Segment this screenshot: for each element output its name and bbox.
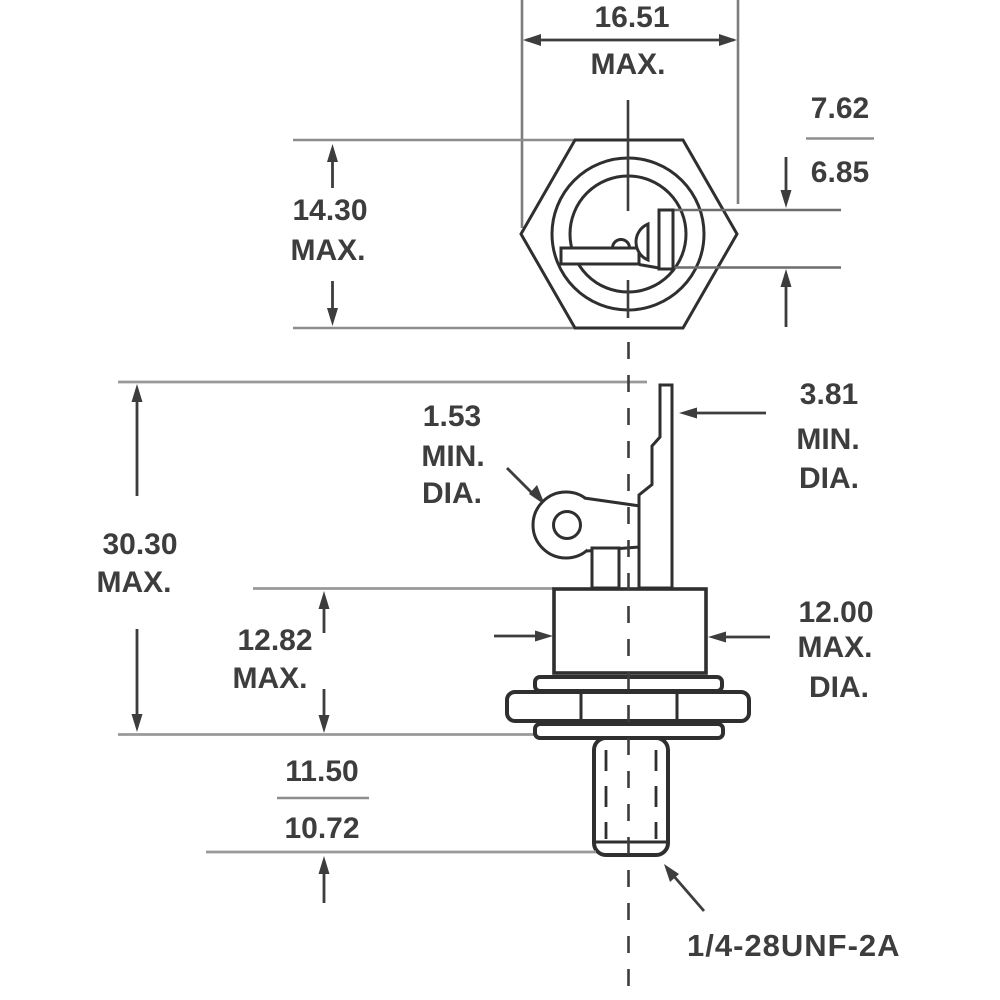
stud chamfer line — [596, 841, 666, 844]
fraction line 7.62/6.85 — [806, 137, 874, 140]
ring lug circle — [533, 492, 599, 558]
ceramic body side view — [554, 589, 706, 673]
svg-text:DIA.: DIA. — [809, 671, 869, 704]
down arrow 7.62 — [785, 157, 788, 200]
extension line top of 14.30 dim — [293, 139, 578, 142]
svg-text:1/4-28UNF-2A: 1/4-28UNF-2A — [687, 928, 901, 963]
lug flag fill — [584, 498, 640, 551]
extension line left of 16.51 dim — [521, 0, 524, 228]
extension line top of 30.30 dim — [118, 381, 647, 384]
svg-text:MAX.: MAX. — [291, 234, 366, 267]
svg-text:12.00: 12.00 — [798, 596, 873, 629]
svg-text:MAX.: MAX. — [798, 631, 873, 664]
leader 1.53 to ring lug — [507, 468, 536, 497]
hex base facet line left — [580, 692, 583, 721]
fraction line 11.50/10.72 — [277, 797, 369, 800]
tab rectangle top view — [659, 210, 673, 269]
arrow 3.81 pointing at lead — [694, 412, 766, 415]
svg-text:MIN.: MIN. — [421, 440, 484, 473]
extension line bottom of 30.30/12.82 dims — [118, 733, 536, 736]
right arrow 12.00 — [724, 636, 770, 639]
svg-text:MAX.: MAX. — [97, 566, 172, 599]
leader 1/4-28UNF-2A — [672, 874, 704, 911]
vertical centerline top view lower segment — [627, 280, 630, 318]
inner circle top view — [570, 176, 686, 292]
lug flag top edge — [584, 498, 640, 506]
svg-text:10.72: 10.72 — [284, 812, 359, 845]
rivet bump on bar — [613, 240, 630, 249]
svg-text:MIN.: MIN. — [796, 423, 859, 456]
D seal bottom connector — [639, 265, 659, 269]
D-shaped seal top view — [636, 224, 648, 260]
hex base side view — [507, 692, 749, 721]
extension line bottom of 7.62 dim — [660, 266, 841, 269]
braid under lug — [592, 548, 619, 588]
up arrow 6.85 — [785, 277, 788, 327]
hex base facet line right — [676, 692, 679, 721]
thread root dashed line right — [655, 750, 658, 839]
dimension line 16.51 — [526, 39, 734, 42]
extension line top of 12.82 dim — [253, 587, 554, 590]
outer circle top view — [552, 158, 704, 310]
extension line bottom of 14.30 dim — [293, 327, 578, 330]
left arrow 12.00 — [494, 635, 538, 638]
arrowhead right of 16.51 — [719, 34, 737, 46]
svg-text:16.51: 16.51 — [594, 1, 669, 34]
up arrow 30.30 — [136, 392, 139, 496]
lug flag bottom edge — [587, 547, 640, 551]
svg-text:DIA.: DIA. — [799, 462, 859, 495]
hexagon body top view — [521, 140, 737, 328]
terminal bar top view — [561, 248, 639, 264]
extension line right of 16.51 dim — [737, 0, 740, 204]
svg-text:3.81: 3.81 — [800, 378, 858, 411]
threaded stud — [594, 738, 668, 855]
dashed vertical centerline — [627, 342, 630, 1000]
vertical centerline top view upper segment — [627, 100, 630, 211]
up arrow 11.50 — [323, 864, 326, 903]
svg-text:11.50: 11.50 — [285, 755, 358, 788]
up arrow 12.82 — [323, 599, 326, 633]
lower washer flange — [535, 724, 723, 738]
svg-text:1.53: 1.53 — [423, 400, 481, 433]
svg-text:MAX.: MAX. — [233, 662, 308, 695]
lug hole — [554, 512, 581, 539]
extension line stud end — [206, 851, 596, 854]
down arrow 14.30 — [331, 281, 334, 318]
svg-text:6.85: 6.85 — [811, 156, 869, 189]
down arrow 30.30 — [136, 629, 139, 724]
svg-text:DIA.: DIA. — [422, 477, 482, 510]
svg-text:12.82: 12.82 — [237, 624, 312, 657]
up arrow 14.30 — [331, 150, 334, 188]
flexible lead side view — [639, 385, 672, 588]
svg-text:MAX.: MAX. — [591, 48, 666, 81]
extension line top of 7.62 dim — [660, 209, 841, 212]
svg-text:14.30: 14.30 — [292, 194, 367, 227]
svg-text:7.62: 7.62 — [811, 92, 869, 125]
thread root dashed line left — [605, 750, 608, 839]
svg-text:30.30: 30.30 — [102, 528, 177, 561]
down arrow 12.82 — [323, 689, 326, 725]
arrowhead left of 16.51 — [523, 34, 541, 46]
upper washer flange — [535, 677, 722, 691]
